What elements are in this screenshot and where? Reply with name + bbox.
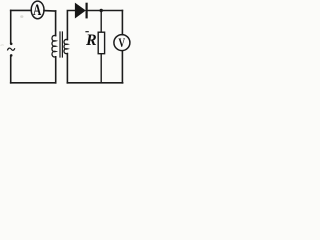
diode D1 [75,3,86,19]
transformer secondary winding L2 [64,39,67,53]
wire junction down to resistor [100,11,102,33]
faint scan speck near top-left [20,15,23,18]
wire left loop left side upper [10,10,12,43]
wire secondary top to right-loop top wire [67,11,75,40]
resistor R [85,32,105,54]
wire resistor to bottom [100,54,102,83]
AC source terminals and symbol [7,43,14,57]
junction node [100,9,103,12]
wire top-left to ammeter [11,9,32,11]
wire secondary bottom to right-loop bottom [66,54,68,83]
transformer primary winding L1 [52,35,56,57]
wire ammeter to left-loop top-right corner [44,10,56,12]
svg-text:A: A [33,1,41,18]
ammeter A1 [31,1,44,19]
transformer core [60,32,62,57]
wire diode to junction to top-right corner [88,10,123,12]
svg-text:V: V [118,37,125,51]
svg-text:R: R [85,32,97,49]
wire right loop right side lower [121,51,123,83]
faint scan mark left of AC source [1,44,4,47]
voltmeter V1 [114,35,130,51]
wire right loop right side upper (to voltmeter) [121,11,123,35]
wire right loop bottom [67,82,122,84]
wire left loop bottom [11,82,56,84]
wire left loop left side lower [10,56,12,83]
wire left loop right side upper (to primary coil) [55,11,57,36]
wire left loop right side lower [55,57,57,83]
